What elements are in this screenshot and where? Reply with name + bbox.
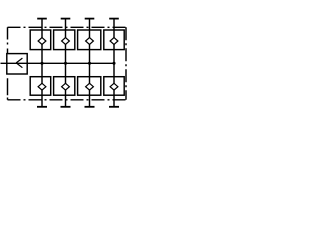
background xyxy=(0,0,128,128)
enclosure frame bottom (dash-dot) xyxy=(8,99,127,101)
enclosure frame top (dash-dot) xyxy=(8,26,127,28)
diamond symbol D7 xyxy=(86,83,94,90)
arrowhead in RX (points left) xyxy=(16,58,22,63)
element box E6 (bottom row) xyxy=(54,77,75,96)
diamond symbol D2 xyxy=(62,38,70,45)
terminal bar T8 (bottom) xyxy=(109,106,119,108)
element box E5 (bottom row) xyxy=(30,77,51,96)
terminal bar T3 (top) xyxy=(85,18,95,20)
terminal bar T5 (bottom) xyxy=(37,106,47,108)
wire: vertical stem cell 2 xyxy=(65,19,67,107)
terminal bar T7 (bottom) xyxy=(85,106,95,108)
receiver box RX (left, with arrow) xyxy=(7,54,27,74)
wire: vertical stem cell 4 xyxy=(113,19,115,107)
junction node J4 xyxy=(112,62,115,65)
element box E4 (top row) xyxy=(104,30,124,50)
terminal bar T2 (top) xyxy=(61,18,71,20)
junction node J1 xyxy=(40,62,43,65)
diamond symbol D8 xyxy=(110,83,118,90)
diamond symbol D4 xyxy=(110,38,118,45)
element box E1 (top row) xyxy=(30,30,51,50)
wire: vertical stem cell 3 xyxy=(89,19,91,107)
diamond symbol D5 xyxy=(38,83,46,90)
element box E3 (top row) xyxy=(78,30,101,50)
junction node J3 xyxy=(88,62,91,65)
junction node J2 xyxy=(64,62,67,65)
terminal bar T1 (top) xyxy=(37,18,47,20)
terminal bar T6 (bottom) xyxy=(61,106,71,108)
diamond symbol D6 xyxy=(62,83,70,90)
enclosure frame right (dash-dot) xyxy=(125,27,127,100)
diamond symbol D1 xyxy=(38,38,46,45)
enclosure frame left (dash-dot, explicit segments) xyxy=(7,27,9,100)
element box E8 (bottom row) xyxy=(104,77,124,96)
terminal bar T4 (top) xyxy=(109,18,119,20)
wire: vertical stem cell 1 xyxy=(41,19,43,107)
diamond symbol D3 xyxy=(86,38,94,45)
element box E7 (bottom row) xyxy=(78,77,101,96)
element box E2 (top row) xyxy=(54,30,75,50)
wire: horizontal bus xyxy=(1,62,115,64)
